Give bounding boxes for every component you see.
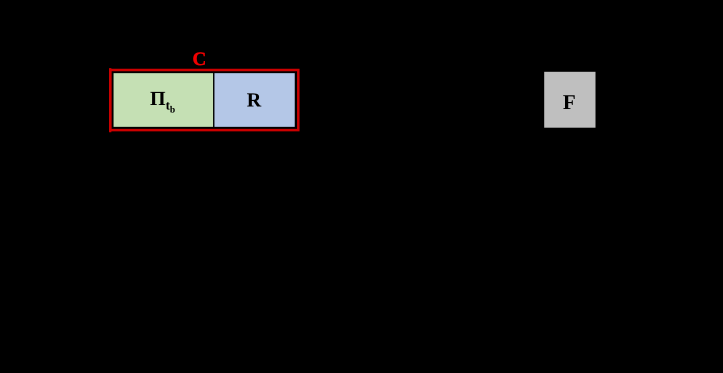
commit frame C (red rectangle) (110, 70, 298, 130)
block R (blue) (214, 73, 296, 128)
label Pi_tb (150, 88, 175, 116)
label C (193, 49, 207, 70)
block F (gray) (544, 72, 595, 128)
svg-text:R: R (247, 90, 262, 112)
block Pi_tb (green) (113, 73, 214, 128)
svg-text:F: F (563, 90, 576, 114)
commit frame left tick (109, 68, 111, 132)
svg-text:C: C (193, 49, 207, 70)
label R (247, 90, 262, 112)
label F (563, 90, 576, 114)
